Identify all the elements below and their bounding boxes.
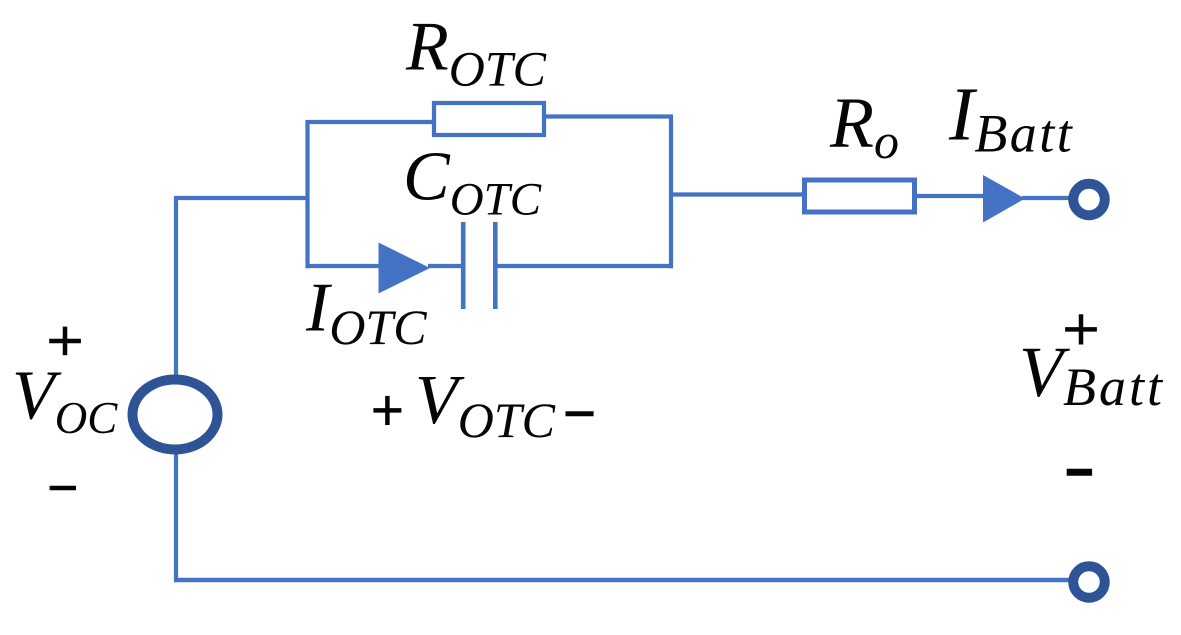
plus sign of V_Batt (1065, 314, 1097, 344)
wire: RC loop to R_o (669, 192, 805, 196)
negative output terminal (1073, 566, 1105, 598)
svg-text:VBatt: VBatt (1019, 332, 1165, 417)
svg-text:VOTC: VOTC (415, 362, 556, 448)
wire: V_OC branch vertical (174, 196, 178, 582)
voltage source V_OC circle (133, 380, 218, 450)
wire: bottom return horizontal (174, 578, 1070, 582)
wire: RC loop right vertical (669, 115, 673, 269)
plus sign of V_OTC (373, 396, 401, 425)
minus sign of V_Batt (1067, 469, 1092, 476)
current arrow I_OTC (379, 243, 431, 294)
minus sign of V_OC (50, 486, 76, 491)
wire: node to RC loop horizontal (174, 196, 310, 200)
wire: RC loop bottom branch left segment (306, 264, 383, 268)
wire: arrow to capacitor segment (428, 264, 461, 268)
wire: R_o to I_Batt arrow (915, 194, 986, 198)
svg-text:COTC: COTC (403, 138, 542, 225)
resistor R_OTC (434, 103, 544, 135)
wire: arrow to positive terminal (1022, 196, 1070, 200)
plus sign of V_OC (49, 327, 81, 356)
wire: RC loop top branch right segment (544, 114, 673, 118)
svg-text:IOTC: IOTC (305, 269, 427, 355)
current arrow I_Batt (983, 175, 1025, 223)
wire: capacitor to right vertical segment (498, 264, 674, 268)
capacitor C_OTC plate 1 (461, 222, 466, 309)
svg-text:Ro: Ro (829, 82, 899, 169)
svg-text:ROTC: ROTC (405, 8, 547, 96)
minus sign of V_OTC (566, 411, 594, 416)
wire: RC loop left vertical (305, 120, 309, 268)
svg-text:VOC: VOC (12, 358, 118, 443)
capacitor C_OTC plate 2 (493, 222, 498, 309)
positive output terminal (1073, 184, 1105, 216)
wire: RC loop top branch left segment (306, 120, 435, 124)
resistor R_o (805, 180, 915, 212)
svg-text:IBatt: IBatt (948, 72, 1074, 163)
